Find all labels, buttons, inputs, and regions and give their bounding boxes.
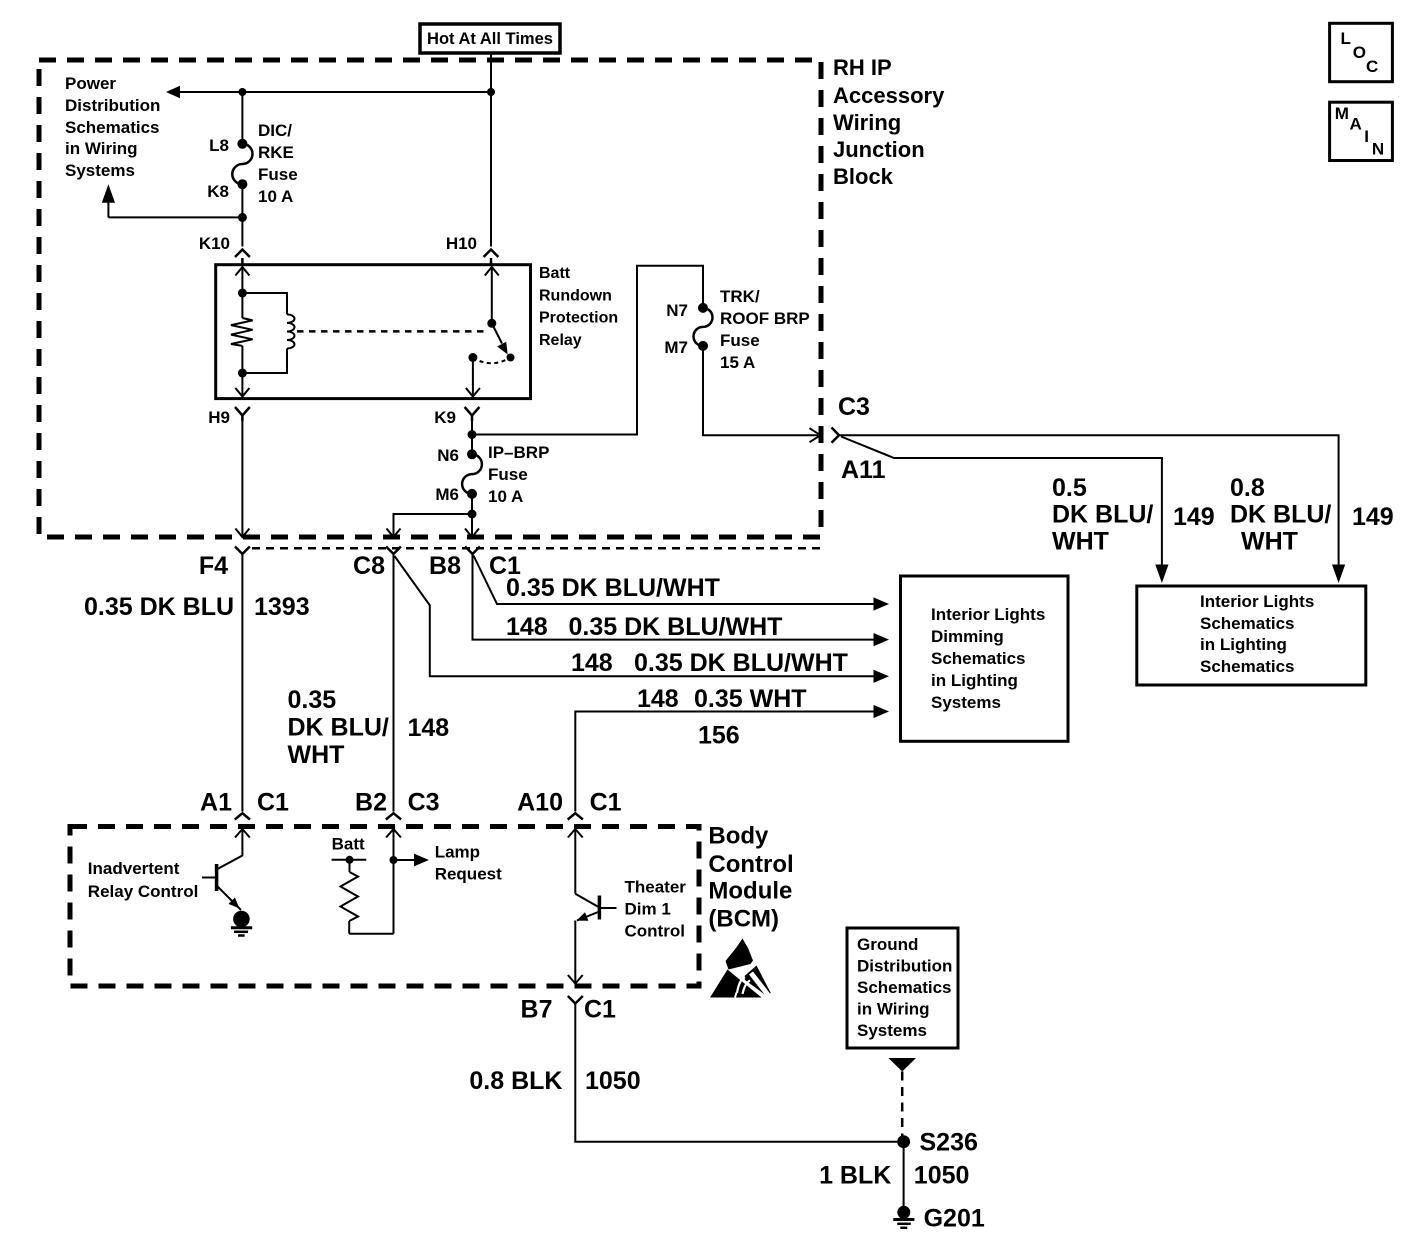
- svg-text:1050: 1050: [914, 1162, 970, 1190]
- svg-text:F4: F4: [199, 552, 228, 580]
- svg-text:A11: A11: [841, 456, 886, 484]
- Batt feed bar: [332, 859, 367, 861]
- svg-text:Batt: Batt: [332, 834, 365, 853]
- fuse IP-BRP value label: [488, 443, 549, 506]
- relay coil bottom junction dot: [238, 369, 247, 378]
- relay K1 Batt Rundown Protection Relay box: [216, 265, 531, 399]
- wire K9 branch to TRK/ROOF fuse N7: [472, 266, 703, 435]
- wire Lamp Request arrow: [394, 854, 429, 867]
- wire Q2 emitter to B7 with exit arrow: [568, 921, 583, 984]
- svg-text:C1: C1: [584, 996, 616, 1024]
- relay K1 label: [539, 265, 618, 349]
- wire 0.8 DK BLU/WHT label: [1230, 474, 1331, 556]
- fuse DIC/RKE 10A element: [232, 144, 252, 184]
- wire from Hot At All Times down to H10: [490, 53, 492, 247]
- svg-text:in Lighting: in Lighting: [931, 671, 1018, 690]
- wire M7 to connector C3 with arrow: [703, 346, 821, 442]
- wire A1 entry arrow into BCM: [235, 829, 250, 856]
- svg-text:Systems: Systems: [857, 1021, 927, 1040]
- Ground Distribution Schematics box: [847, 928, 958, 1048]
- node K9 branch junction dot: [468, 430, 477, 439]
- svg-text:C3: C3: [408, 789, 440, 817]
- svg-text:S236: S236: [920, 1129, 978, 1157]
- svg-text:in Wiring: in Wiring: [65, 139, 138, 158]
- node lamp request junction dot: [390, 856, 398, 864]
- svg-text:B8: B8: [429, 552, 461, 580]
- transistor Q2 theater dim driver: [575, 894, 616, 921]
- svg-text:148: 148: [571, 649, 613, 677]
- svg-text:Hot At All Times: Hot At All Times: [427, 30, 553, 48]
- svg-text:1 BLK: 1 BLK: [819, 1162, 891, 1190]
- svg-text:Protection: Protection: [539, 310, 618, 327]
- svg-text:1393: 1393: [254, 593, 310, 621]
- ground distribution link arrow: [889, 1058, 917, 1072]
- svg-text:M7: M7: [664, 338, 688, 357]
- relay coil-side wire with entry arrow: [235, 267, 249, 318]
- splice S236 dot: [897, 1135, 910, 1148]
- svg-text:Distribution: Distribution: [65, 96, 160, 115]
- relay switch common wire with entry arrow: [485, 267, 499, 323]
- svg-text:O: O: [1353, 43, 1366, 62]
- svg-text:N: N: [1372, 139, 1384, 158]
- connector Y B8: [465, 547, 480, 555]
- junction block lower connector dashed line: [252, 547, 820, 550]
- svg-text:149: 149: [1352, 503, 1394, 531]
- relay switch pivot dot: [487, 319, 496, 328]
- svg-text:0.35 DK BLU: 0.35 DK BLU: [84, 593, 234, 621]
- svg-text:Control: Control: [625, 922, 685, 941]
- svg-text:WHT: WHT: [1052, 528, 1109, 556]
- svg-text:K8: K8: [207, 182, 229, 201]
- svg-text:156: 156: [698, 722, 740, 750]
- svg-text:L8: L8: [209, 136, 229, 155]
- svg-text:C1: C1: [257, 789, 289, 817]
- svg-text:in Lighting: in Lighting: [1200, 635, 1287, 654]
- relay coil-side exit wire with arrow: [235, 346, 249, 397]
- relay switch blade end dot: [507, 354, 515, 362]
- fuse IP-BRP terminal dot N6: [467, 449, 477, 459]
- svg-text:Request: Request: [435, 865, 502, 884]
- svg-text:0.5: 0.5: [1052, 474, 1087, 502]
- wire H9 down to F4 with exit arrow: [235, 416, 249, 538]
- svg-text:149: 149: [1173, 503, 1215, 531]
- wire C3 to right interior lights schematics with down arrow: [839, 435, 1345, 583]
- wire 148 0.35 DK BLU/WHT row3 label: [571, 649, 848, 677]
- svg-text:Accessory: Accessory: [833, 83, 945, 108]
- connector chevron A10: [568, 813, 583, 819]
- LOC reference box: [1330, 23, 1393, 81]
- svg-text:Interior Lights: Interior Lights: [1200, 592, 1314, 611]
- fuse IP-BRP element: [462, 454, 482, 494]
- svg-text:Fuse: Fuse: [488, 465, 528, 484]
- connector Y C8: [386, 547, 401, 555]
- svg-text:C3: C3: [838, 393, 870, 421]
- svg-text:M: M: [1335, 104, 1349, 123]
- ground symbol at Q1 emitter: [231, 911, 252, 936]
- svg-text:Dimming: Dimming: [931, 627, 1004, 646]
- svg-text:Lamp: Lamp: [435, 843, 480, 862]
- RH IP Accessory Wiring Junction Block label: [833, 55, 945, 189]
- svg-text:K9: K9: [434, 408, 456, 427]
- Interior Lights Dimming Schematics box: [901, 576, 1069, 741]
- relay switch fixed contact dot: [468, 353, 477, 362]
- RH IP Accessory Wiring Junction Block dashed outline: [39, 60, 821, 537]
- svg-text:WHT: WHT: [1241, 528, 1298, 556]
- Theater Dim 1 Control label: [625, 878, 687, 941]
- connector C3 female chevron: [832, 428, 840, 443]
- connector Y H9: [235, 407, 250, 421]
- connector Y F4: [235, 547, 250, 555]
- relay actuation dashed link: [297, 330, 488, 333]
- svg-text:B2: B2: [355, 789, 387, 817]
- wire B8 row2 to dimming box with arrow: [473, 554, 890, 646]
- svg-text:Power: Power: [65, 74, 116, 93]
- ground G201 symbol: [893, 1206, 914, 1228]
- svg-text:Ground: Ground: [857, 935, 918, 954]
- wire F4 down to A1: [241, 554, 243, 812]
- svg-text:IP–BRP: IP–BRP: [488, 443, 549, 462]
- svg-text:Control: Control: [708, 851, 793, 878]
- svg-text:15 A: 15 A: [720, 353, 755, 372]
- node junction dot power distribution stub: [238, 213, 247, 222]
- svg-text:Rundown: Rundown: [539, 287, 612, 304]
- svg-text:A1: A1: [200, 789, 232, 817]
- wire branch to Power Distribution Schematics: [166, 86, 491, 98]
- wire C8 down to B2: [393, 554, 395, 812]
- svg-text:148: 148: [637, 685, 679, 713]
- ESD sensitive device symbol: [710, 939, 771, 998]
- Interior Lights Schematics in Lighting Schematics box: [1137, 586, 1366, 685]
- resistor relay suppression: [231, 318, 253, 346]
- svg-text:0.35 DK BLU/WHT: 0.35 DK BLU/WHT: [569, 613, 783, 641]
- svg-text:Fuse: Fuse: [258, 165, 298, 184]
- relay coil L1: [242, 293, 294, 373]
- svg-text:M6: M6: [435, 485, 459, 504]
- svg-text:Block: Block: [833, 164, 894, 189]
- wire 0.35 DK BLU/WHT label left column: [288, 686, 389, 769]
- svg-text:DK BLU/: DK BLU/: [1052, 501, 1153, 529]
- svg-text:0.35 DK BLU/WHT: 0.35 DK BLU/WHT: [634, 649, 848, 677]
- svg-text:148: 148: [408, 714, 450, 742]
- svg-text:DIC/: DIC/: [258, 121, 292, 140]
- wire A10 entry arrow into BCM: [568, 829, 583, 894]
- svg-text:(BCM): (BCM): [708, 906, 779, 933]
- svg-text:Distribution: Distribution: [857, 957, 952, 976]
- wire stub to Power Distribution arrow: [102, 184, 243, 217]
- svg-text:in Wiring: in Wiring: [857, 1000, 930, 1019]
- Hot At All Times power tag: [420, 24, 560, 53]
- Batt junction dot: [346, 856, 354, 864]
- wire branch to C8 with exit arrow: [387, 514, 473, 537]
- Body Control Module dashed outline: [70, 827, 699, 987]
- fuse TRK/ROOF BRP terminal dot N7: [698, 303, 708, 313]
- wire 148 0.35 DK BLU/WHT row2 label: [506, 613, 782, 641]
- relay switch blade with arrow: [492, 323, 508, 354]
- svg-text:H10: H10: [446, 234, 477, 253]
- svg-text:Theater: Theater: [625, 878, 687, 897]
- svg-text:Schematics: Schematics: [65, 118, 160, 137]
- wire C8 row3 diagonal to dimming box with arrow: [395, 556, 890, 683]
- relay switch exit wire with arrow: [466, 358, 480, 397]
- node M6 branch junction dot: [468, 510, 477, 519]
- svg-text:A: A: [1350, 114, 1362, 133]
- svg-text:Schematics: Schematics: [1200, 614, 1295, 633]
- svg-text:Schematics: Schematics: [857, 978, 952, 997]
- fuse DIC/RKE 10A terminal dot L8: [237, 139, 247, 149]
- svg-text:0.8 BLK: 0.8 BLK: [469, 1067, 562, 1095]
- svg-text:L: L: [1341, 29, 1351, 48]
- svg-text:RKE: RKE: [258, 143, 294, 162]
- svg-text:Junction: Junction: [833, 137, 925, 162]
- svg-text:WHT: WHT: [288, 741, 345, 769]
- svg-text:N7: N7: [666, 301, 688, 320]
- svg-text:N6: N6: [437, 446, 459, 465]
- svg-text:Interior Lights: Interior Lights: [931, 605, 1045, 624]
- svg-text:Schematics: Schematics: [931, 649, 1026, 668]
- svg-text:Body: Body: [708, 823, 769, 850]
- svg-text:A10: A10: [517, 789, 563, 817]
- node junction dot at H10 branch: [487, 88, 495, 96]
- transistor Q1 inadvertent relay driver: [202, 856, 242, 911]
- svg-text:Relay Control: Relay Control: [88, 882, 199, 901]
- svg-text:0.8: 0.8: [1230, 474, 1265, 502]
- wire 148 0.35 WHT row4 label: [637, 685, 807, 713]
- connector Y B7: [568, 996, 583, 1004]
- svg-text:Fuse: Fuse: [720, 331, 760, 350]
- svg-text:C8: C8: [353, 552, 385, 580]
- connector chevron K10: [235, 250, 250, 265]
- svg-text:10 A: 10 A: [258, 187, 293, 206]
- Body Control Module (BCM) label: [708, 823, 793, 933]
- svg-text:Schematics: Schematics: [1200, 657, 1295, 676]
- svg-text:B7: B7: [521, 996, 553, 1024]
- svg-text:0.35 WHT: 0.35 WHT: [694, 685, 807, 713]
- fuse DIC/RKE 10A value label: [258, 121, 298, 206]
- fuse TRK/ROOF BRP element: [694, 308, 713, 346]
- connector chevron A1: [235, 813, 250, 819]
- fuse TRK/ROOF BRP value label: [720, 287, 810, 372]
- svg-text:DK BLU/: DK BLU/: [1230, 501, 1331, 529]
- MAIN reference box: [1330, 102, 1393, 160]
- relay switch travel dashed arc: [473, 358, 511, 364]
- wire B8 row1 diagonal to dimming box with arrow: [474, 556, 890, 611]
- svg-text:ROOF BRP: ROOF BRP: [720, 309, 810, 328]
- svg-text:148: 148: [506, 613, 548, 641]
- svg-text:Inadvertent: Inadvertent: [88, 859, 180, 878]
- svg-text:Systems: Systems: [65, 161, 135, 180]
- wire S236 to G201: [903, 1142, 905, 1206]
- resistor BCM pull-up: [341, 860, 359, 934]
- svg-text:Module: Module: [708, 878, 792, 905]
- wire K9 down to fuse N6: [471, 416, 473, 455]
- connector chevron H10: [484, 250, 499, 265]
- svg-text:TRK/: TRK/: [720, 287, 760, 306]
- svg-text:0.35 DK BLU/WHT: 0.35 DK BLU/WHT: [506, 574, 720, 602]
- wire resistor to B2 column: [349, 933, 393, 935]
- wire 0.5 DK BLU/WHT label: [1052, 474, 1153, 556]
- svg-text:Relay: Relay: [539, 332, 582, 349]
- svg-text:C: C: [1366, 57, 1378, 76]
- fuse IP-BRP terminal dot M6: [467, 489, 477, 499]
- connector chevron B2: [386, 813, 401, 819]
- fuse DIC/RKE 10A terminal dot K8: [237, 179, 247, 189]
- svg-text:Dim 1: Dim 1: [625, 900, 671, 919]
- svg-text:RH IP: RH IP: [833, 55, 892, 80]
- connector Y K9: [465, 407, 480, 421]
- wire A10 row4 to dimming box with arrow: [575, 705, 889, 812]
- wire from K8 down to K10: [241, 184, 243, 246]
- Power Distribution Schematics in Wiring Systems label: [65, 74, 160, 180]
- svg-text:K10: K10: [199, 234, 230, 253]
- wire M6 down to B8 with exit arrow: [465, 494, 479, 537]
- svg-text:Wiring: Wiring: [833, 110, 901, 135]
- svg-text:I: I: [1364, 127, 1369, 146]
- svg-text:0.35: 0.35: [288, 686, 337, 714]
- svg-text:1050: 1050: [585, 1067, 641, 1095]
- svg-text:H9: H9: [208, 408, 230, 427]
- svg-text:C1: C1: [590, 789, 622, 817]
- Inadvertent Relay Control label: [88, 859, 199, 901]
- wire A11 to 149 drop with down arrow: [841, 437, 1169, 584]
- svg-text:Batt: Batt: [539, 265, 571, 282]
- svg-text:G201: G201: [924, 1204, 985, 1232]
- svg-text:DK BLU/: DK BLU/: [288, 714, 389, 742]
- ground distribution dashed link wire: [901, 1072, 904, 1139]
- node junction dot at L8 branch: [238, 88, 246, 96]
- wire B7 to S236: [575, 1004, 897, 1142]
- relay coil top junction dot: [238, 289, 247, 298]
- wire from junction down to fuse L8: [241, 92, 243, 144]
- svg-text:10 A: 10 A: [488, 487, 523, 506]
- wire B2 entry arrow into BCM: [386, 829, 401, 934]
- fuse TRK/ROOF BRP terminal dot M7: [698, 341, 708, 351]
- Lamp Request label: [435, 843, 502, 884]
- svg-text:Systems: Systems: [931, 693, 1001, 712]
